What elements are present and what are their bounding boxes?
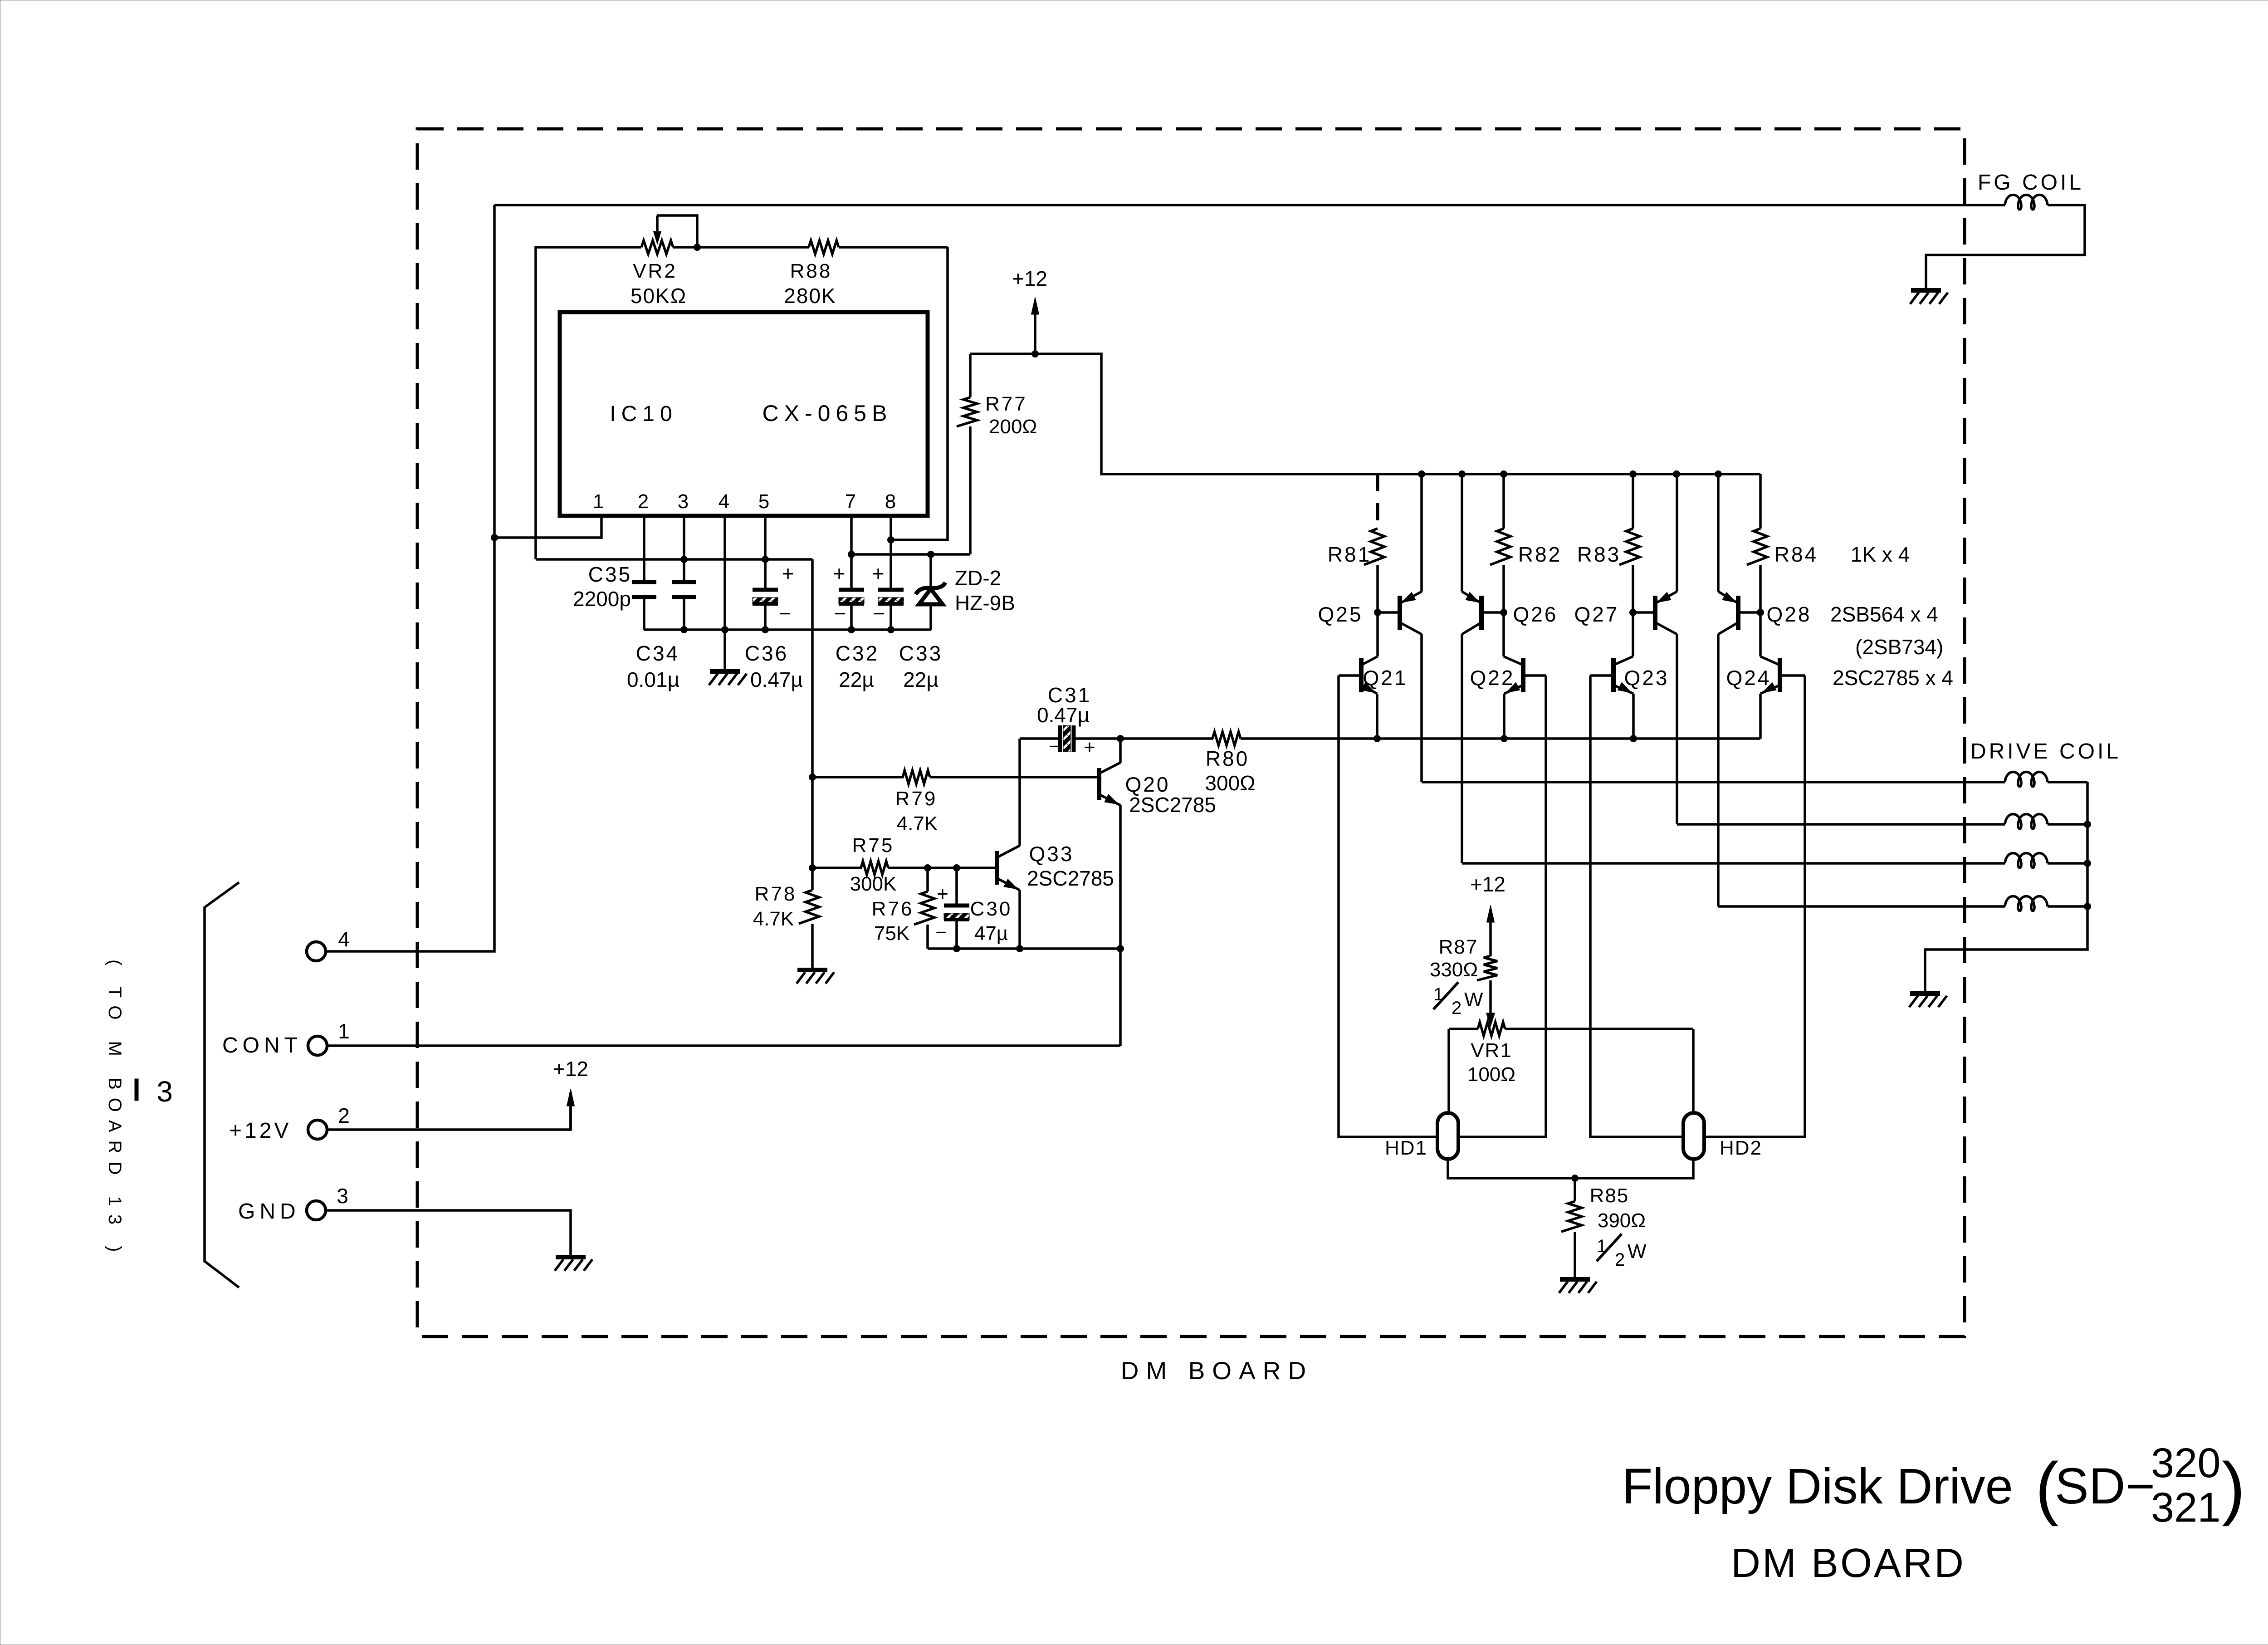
Q28 label bbox=[1767, 602, 1812, 626]
svg-text:2SC2785 x 4: 2SC2785 x 4 bbox=[1833, 666, 1953, 690]
node rail-ZD2 bbox=[927, 551, 934, 558]
svg-text:SD−: SD− bbox=[2055, 1458, 2155, 1514]
svg-text:3: 3 bbox=[678, 490, 689, 513]
pin 4 terminal bbox=[307, 942, 326, 961]
pin number 5 bbox=[758, 490, 769, 513]
C30 plus bbox=[937, 883, 948, 905]
pin number 1 bbox=[593, 490, 604, 513]
R88 value 280K bbox=[784, 284, 836, 308]
node Q27 base bbox=[1629, 609, 1637, 616]
svg-text:−: − bbox=[873, 602, 885, 625]
ground (FG coil) bbox=[1910, 290, 1948, 304]
R75 value 300K bbox=[850, 873, 897, 895]
svg-text:Floppy Disk Drive: Floppy Disk Drive bbox=[1622, 1459, 2013, 1514]
R80 value 300Ω bbox=[1205, 771, 1255, 795]
svg-text:R87: R87 bbox=[1439, 936, 1478, 958]
VR1 right leg bbox=[1692, 1029, 1695, 1113]
svg-text:Q27: Q27 bbox=[1574, 602, 1619, 626]
svg-text:(2SB734): (2SB734) bbox=[1855, 635, 1943, 659]
svg-text:R79: R79 bbox=[895, 788, 938, 810]
C34 label bbox=[636, 641, 679, 665]
transistor Q23 2SC2785 bbox=[1590, 612, 1633, 739]
CONT label bbox=[222, 1033, 302, 1057]
R87 wiper arrow bbox=[1486, 1013, 1495, 1027]
R79 value 4.7K bbox=[897, 813, 938, 835]
svg-text:2SC2785: 2SC2785 bbox=[1129, 793, 1216, 817]
svg-text:−: − bbox=[935, 921, 947, 944]
inductor FG coil bbox=[2005, 195, 2048, 210]
node bus-Q26em bbox=[1458, 470, 1466, 478]
C35 lead bbox=[643, 597, 645, 630]
svg-text:8: 8 bbox=[885, 490, 896, 513]
R78 value 4.7K bbox=[753, 908, 794, 930]
node Q28 base bbox=[1757, 609, 1764, 616]
wire drive coil common bus bbox=[1925, 782, 2087, 994]
R75 label bbox=[852, 834, 894, 857]
svg-text:2: 2 bbox=[338, 1104, 350, 1127]
+12 label (R87) bbox=[1470, 872, 1505, 896]
C35 value 2200p bbox=[573, 587, 631, 611]
svg-text:22µ: 22µ bbox=[839, 668, 874, 691]
Q24 label bbox=[1726, 666, 1771, 690]
node pin8 tie bbox=[887, 536, 894, 543]
wire bias bottom bbox=[928, 947, 1120, 950]
R87 power 1/2W bbox=[1433, 982, 1483, 1018]
capacitor C35 bbox=[632, 582, 656, 597]
svg-text:R81: R81 bbox=[1328, 543, 1371, 566]
svg-text:R76: R76 bbox=[872, 898, 914, 920]
Q33 label bbox=[1029, 842, 1074, 866]
transistor Q24 2SC2785 bbox=[1760, 612, 1805, 739]
svg-text:HD2: HD2 bbox=[1720, 1137, 1762, 1159]
node bus-Q25em bbox=[1418, 470, 1425, 478]
svg-text:GND: GND bbox=[238, 1199, 300, 1224]
svg-text:390Ω: 390Ω bbox=[1598, 1209, 1646, 1232]
+12 supply arrow (R87) bbox=[1487, 905, 1495, 956]
R76 value 75K bbox=[874, 922, 909, 945]
+12 supply arrow (pin2) bbox=[567, 1089, 575, 1130]
svg-text:DM BOARD: DM BOARD bbox=[1731, 1541, 1965, 1586]
pin number 2 bbox=[638, 490, 649, 513]
svg-text:VR1: VR1 bbox=[1471, 1039, 1512, 1062]
inductor drive coil 1 bbox=[2005, 772, 2048, 787]
svg-text:200Ω: 200Ω bbox=[989, 416, 1037, 438]
svg-text:): ) bbox=[2222, 1448, 2245, 1527]
svg-text:22µ: 22µ bbox=[903, 668, 938, 691]
inductor drive coil 3 bbox=[2005, 853, 2048, 868]
svg-text:+12: +12 bbox=[553, 1057, 588, 1081]
C36 minus bbox=[779, 602, 791, 625]
wire loop box right edge bbox=[891, 247, 948, 540]
Q27 label bbox=[1574, 602, 1619, 626]
VR1 left leg bbox=[1447, 1029, 1450, 1113]
node Q23 emitter tie bbox=[1630, 735, 1637, 742]
resistor R85 bbox=[1561, 1178, 1582, 1279]
+12 label (R77) bbox=[1012, 267, 1047, 290]
svg-text:0.47µ: 0.47µ bbox=[750, 668, 803, 691]
node Q21 emitter tie bbox=[1374, 735, 1381, 742]
node bias to Q20 emitter bbox=[1117, 945, 1124, 952]
node bus-pin4 bbox=[721, 626, 728, 633]
R85 value 390Ω bbox=[1598, 1209, 1646, 1232]
node C30 top bbox=[953, 864, 960, 871]
svg-text:R88: R88 bbox=[790, 260, 832, 282]
svg-text:DM BOARD: DM BOARD bbox=[1121, 1356, 1313, 1385]
node rail-pin3 bbox=[680, 556, 688, 563]
transistor Q33 2SC2785 bbox=[997, 777, 1020, 949]
R87 value 330Ω bbox=[1430, 959, 1478, 981]
pin number 7 bbox=[845, 490, 856, 513]
IC10 label bbox=[610, 402, 677, 426]
wire coil4 to bus bbox=[2048, 905, 2087, 908]
R83 label bbox=[1577, 543, 1621, 566]
R78 label bbox=[755, 883, 797, 905]
svg-text:C36: C36 bbox=[745, 641, 788, 665]
ground (pin3) bbox=[555, 1257, 592, 1271]
C32 lead bbox=[850, 604, 853, 630]
wire loop rail pins 3-5 bbox=[536, 558, 812, 561]
wire drive line A (Q25) bbox=[1422, 781, 2005, 783]
svg-text:1: 1 bbox=[593, 490, 604, 513]
svg-text:4: 4 bbox=[719, 490, 729, 513]
wire pin2 to +12 bbox=[327, 1092, 571, 1130]
svg-text:1: 1 bbox=[338, 1019, 350, 1043]
pin 8 lead bbox=[890, 516, 892, 590]
Q21 label bbox=[1363, 666, 1408, 690]
svg-text:−: − bbox=[1049, 735, 1061, 758]
R76 label bbox=[872, 898, 914, 920]
svg-text:+12V: +12V bbox=[229, 1119, 291, 1143]
C36 label bbox=[745, 641, 788, 665]
svg-text:Q22: Q22 bbox=[1470, 666, 1515, 690]
pin 1 terminal bbox=[308, 1036, 327, 1055]
Q28 type 2SB564 x 4 bbox=[1830, 602, 1938, 626]
svg-text:ZD-2: ZD-2 bbox=[955, 566, 1001, 590]
C36 value 0.47µ bbox=[750, 668, 803, 691]
Q22 label bbox=[1470, 666, 1515, 690]
ground (R78) bbox=[797, 970, 834, 984]
Q25 label bbox=[1318, 602, 1363, 626]
wire coil2 to bus bbox=[2048, 823, 2087, 826]
svg-text:4: 4 bbox=[338, 927, 350, 951]
pin 3 lead bbox=[683, 516, 685, 582]
pin number 3 bbox=[678, 490, 689, 513]
node bias-C30 bbox=[953, 945, 960, 952]
svg-text:Q28: Q28 bbox=[1767, 602, 1812, 626]
C31 minus bbox=[1049, 735, 1061, 758]
svg-text:HD1: HD1 bbox=[1385, 1137, 1427, 1159]
svg-text:+: + bbox=[1084, 736, 1095, 759]
wire rail drop to bias network bbox=[811, 559, 814, 868]
+12 supply arrow (R77) bbox=[1031, 297, 1039, 354]
svg-text:100Ω: 100Ω bbox=[1467, 1063, 1515, 1086]
capacitor C34 bbox=[672, 582, 696, 597]
wire drive line D (Q28) bbox=[1718, 905, 2005, 908]
svg-text:2: 2 bbox=[1615, 1250, 1625, 1270]
svg-text:2SC2785: 2SC2785 bbox=[1027, 867, 1114, 890]
Q20 type 2SC2785 bbox=[1129, 793, 1216, 817]
C32 value 22µ bbox=[839, 668, 874, 691]
ground (drive coil) bbox=[1909, 994, 1947, 1007]
CX-065B label bbox=[763, 401, 893, 426]
svg-text:4.7K: 4.7K bbox=[897, 813, 938, 835]
svg-text:+12: +12 bbox=[1470, 872, 1505, 896]
node R79 top tie bbox=[809, 774, 816, 781]
wire pin3 to ground bbox=[326, 1210, 571, 1257]
C33 value 22µ bbox=[903, 668, 938, 691]
svg-text:R78: R78 bbox=[755, 883, 797, 905]
VR2 wiper bbox=[654, 215, 698, 247]
svg-text:C34: C34 bbox=[636, 641, 679, 665]
node R76 top bbox=[924, 864, 931, 871]
ZD-2 value HZ-9B bbox=[955, 591, 1015, 615]
wire Q24 base to HD2 bbox=[1704, 676, 1805, 1137]
zener diode ZD-2 bbox=[916, 554, 945, 630]
resistor R79 bbox=[812, 770, 1020, 784]
svg-text:R75: R75 bbox=[852, 834, 894, 857]
title DM BOARD bbox=[1731, 1541, 1965, 1586]
transistor Q22 2SC2785 bbox=[1504, 612, 1546, 739]
VR1 label bbox=[1471, 1039, 1512, 1062]
svg-text:7: 7 bbox=[845, 490, 856, 513]
wire Q22 base to HD1 bbox=[1458, 676, 1546, 1137]
svg-text:C30: C30 bbox=[970, 898, 1012, 920]
svg-text:2: 2 bbox=[1452, 998, 1461, 1018]
node Q22 emitter tie bbox=[1501, 735, 1508, 742]
svg-text:+: + bbox=[833, 562, 846, 585]
wire pin4 to FG net bbox=[326, 205, 494, 951]
transistor Q25 2SB564 bbox=[1378, 474, 1422, 782]
C31 plus bbox=[1084, 736, 1095, 759]
title Floppy Disk Drive bbox=[1622, 1440, 2245, 1531]
svg-text:R80: R80 bbox=[1206, 747, 1249, 770]
node bus-R83 bbox=[1629, 470, 1637, 478]
capacitor C36 bbox=[753, 590, 778, 604]
svg-text:C33: C33 bbox=[899, 641, 943, 665]
wire drive line C (Q26) bbox=[1462, 862, 2005, 865]
C34 lead bbox=[683, 597, 685, 630]
node coilbus-4 bbox=[2084, 903, 2091, 910]
svg-text:−: − bbox=[834, 602, 846, 625]
svg-text:R85: R85 bbox=[1590, 1185, 1629, 1207]
wire Q23 base to HD2 bbox=[1590, 676, 1684, 1137]
svg-text:75K: 75K bbox=[874, 922, 909, 945]
node rail-pin5 bbox=[762, 556, 769, 563]
transistor Q27 2SB564 bbox=[1633, 474, 1677, 824]
connector label (TO M BOARD 13) rotated bbox=[105, 960, 125, 1260]
ground (pin4 bus) bbox=[709, 630, 747, 685]
svg-text:W: W bbox=[1628, 1240, 1647, 1263]
+12 label (pin2) bbox=[553, 1057, 588, 1081]
node rail-pin7 bbox=[848, 551, 855, 558]
svg-text:+: + bbox=[937, 883, 948, 905]
R84 label bbox=[1774, 543, 1818, 566]
C30 value 47µ bbox=[974, 922, 1008, 945]
+12V label bbox=[229, 1119, 291, 1143]
R79 label bbox=[895, 788, 938, 810]
R88 label bbox=[790, 260, 832, 282]
svg-text:1K x 4: 1K x 4 bbox=[1851, 543, 1910, 566]
wire CONT line bbox=[327, 1044, 1120, 1047]
resistor R77 bbox=[957, 354, 977, 554]
C32 plus bbox=[833, 562, 846, 585]
R85 power 1/2W bbox=[1597, 1234, 1647, 1270]
svg-text:2: 2 bbox=[638, 490, 649, 513]
node +12 arrow tie bbox=[1031, 350, 1039, 357]
svg-text:0.47µ: 0.47µ bbox=[1037, 703, 1090, 727]
node bus-C36 bbox=[762, 626, 769, 633]
node bus-C32 bbox=[848, 626, 855, 633]
node bus-Q27em bbox=[1673, 470, 1680, 478]
svg-text:50KΩ: 50KΩ bbox=[631, 284, 687, 308]
svg-text:R83: R83 bbox=[1577, 543, 1621, 566]
svg-text:Q24: Q24 bbox=[1726, 666, 1771, 690]
wire pin7 rail bbox=[851, 553, 970, 556]
wire pin1 branch bbox=[494, 516, 601, 538]
node Q26 base bbox=[1500, 609, 1507, 616]
resistor R82 bbox=[1490, 474, 1510, 612]
wire VR2 to R88 bbox=[673, 246, 809, 249]
svg-text:HZ-9B: HZ-9B bbox=[955, 591, 1015, 615]
svg-text:321: 321 bbox=[2151, 1484, 2221, 1531]
C31 label bbox=[1048, 683, 1091, 707]
Q23 label bbox=[1624, 666, 1669, 690]
svg-text:47µ: 47µ bbox=[974, 922, 1008, 945]
pin 7 lead bbox=[850, 516, 853, 590]
potentiometer VR1 bbox=[1449, 1022, 1693, 1036]
svg-text:C35: C35 bbox=[588, 563, 632, 586]
svg-text:FG COIL: FG COIL bbox=[1978, 171, 2084, 195]
inductor drive coil 2 bbox=[2005, 814, 2048, 829]
C36 plus bbox=[782, 562, 794, 585]
svg-text:R77: R77 bbox=[985, 393, 1027, 415]
resistor R88 bbox=[809, 240, 839, 254]
DM BOARD caption bbox=[1121, 1356, 1313, 1385]
svg-text:R84: R84 bbox=[1774, 543, 1818, 566]
node bus-R82 bbox=[1500, 470, 1507, 478]
wire R88 to loop right edge bbox=[839, 246, 948, 249]
C30 minus bbox=[935, 921, 947, 944]
R81 label bbox=[1328, 543, 1371, 566]
R85 label bbox=[1590, 1185, 1629, 1207]
wire drive line B (Q27) bbox=[1677, 823, 2005, 826]
svg-text:−: − bbox=[779, 602, 791, 625]
svg-text:300Ω: 300Ω bbox=[1205, 771, 1255, 795]
pin 5 lead bbox=[764, 516, 767, 590]
svg-text:Q23: Q23 bbox=[1624, 666, 1669, 690]
C32 minus bbox=[834, 602, 846, 625]
C36 leads bbox=[764, 559, 767, 630]
node R75 tie bbox=[809, 864, 816, 871]
C33 label bbox=[899, 641, 943, 665]
Q26 label bbox=[1513, 602, 1558, 626]
node pin1 junction bbox=[491, 534, 498, 541]
C33 lead bbox=[890, 604, 892, 630]
capacitor C32 bbox=[839, 590, 864, 604]
svg-text:CONT: CONT bbox=[222, 1033, 302, 1057]
svg-text:Q26: Q26 bbox=[1513, 602, 1558, 626]
node coilbus-3 bbox=[2084, 860, 2091, 867]
wire loop box left edge bbox=[536, 247, 641, 559]
HD1 label bbox=[1385, 1137, 1427, 1159]
pin 4 lead bbox=[723, 516, 726, 630]
svg-text:IC10: IC10 bbox=[610, 402, 677, 426]
svg-text:( TO M BOARD 13 ): ( TO M BOARD 13 ) bbox=[105, 960, 125, 1260]
svg-text:330Ω: 330Ω bbox=[1430, 959, 1478, 981]
svg-text:Q33: Q33 bbox=[1029, 842, 1074, 866]
svg-text:320: 320 bbox=[2151, 1440, 2221, 1486]
resistor R83 bbox=[1619, 474, 1640, 612]
DRIVE COIL label bbox=[1970, 739, 2121, 764]
svg-text:3: 3 bbox=[337, 1184, 348, 1208]
connector designator I 3 bbox=[135, 1075, 173, 1108]
transistor Q21 2SC2785 bbox=[1339, 612, 1378, 739]
head HD2 bbox=[1683, 1113, 1704, 1159]
pin 2 lead bbox=[643, 516, 645, 582]
VR2 value 50KΩ bbox=[631, 284, 687, 308]
pin 1 label bbox=[338, 1019, 350, 1043]
svg-text:2200p: 2200p bbox=[573, 587, 631, 611]
pin number 8 bbox=[885, 490, 896, 513]
head HD1 bbox=[1437, 1113, 1458, 1159]
pin 3 label bbox=[337, 1184, 348, 1208]
pin 2 label bbox=[338, 1104, 350, 1127]
C32 label bbox=[836, 641, 879, 665]
R77 value 200Ω bbox=[989, 416, 1037, 438]
resistor R76 bbox=[914, 868, 934, 949]
C30 label bbox=[970, 898, 1012, 920]
svg-text:W: W bbox=[1464, 989, 1483, 1011]
wire FG coil return bbox=[1926, 205, 2085, 290]
ground (R85) bbox=[1559, 1279, 1597, 1293]
resistor R80 bbox=[1120, 732, 1760, 745]
node bias-Q33em bbox=[1016, 945, 1023, 952]
svg-text:+: + bbox=[872, 562, 885, 585]
resistor R84 bbox=[1747, 474, 1767, 612]
wire FG top line bbox=[494, 204, 2005, 206]
wire ground bus under caps bbox=[644, 628, 931, 631]
wire R77 top to +12 bus bbox=[970, 354, 1760, 474]
svg-text:300K: 300K bbox=[850, 873, 897, 895]
DM board dashed boundary bbox=[417, 129, 1965, 1337]
FG COIL label bbox=[1978, 171, 2084, 195]
capacitor C30 bbox=[944, 868, 969, 949]
node C31/R80 junction bbox=[1117, 735, 1124, 742]
svg-text:5: 5 bbox=[758, 490, 769, 513]
ZD-2 label bbox=[955, 566, 1001, 590]
wire Q21 base to HD1 bbox=[1339, 676, 1438, 1137]
svg-text:0.01µ: 0.01µ bbox=[627, 668, 679, 691]
node bus-C33 bbox=[887, 626, 894, 633]
C31 value 0.47µ bbox=[1037, 703, 1090, 727]
svg-text:4.7K: 4.7K bbox=[753, 908, 794, 930]
potentiometer VR2 bbox=[641, 240, 673, 254]
wire coil1 to bus bbox=[2048, 781, 2087, 783]
VR1 value 100Ω bbox=[1467, 1063, 1515, 1086]
svg-text:C32: C32 bbox=[836, 641, 879, 665]
svg-text:+12: +12 bbox=[1012, 267, 1047, 290]
svg-text:2SB564 x 4: 2SB564 x 4 bbox=[1830, 602, 1938, 626]
capacitor C31 bbox=[1020, 725, 1120, 777]
pin number 4 bbox=[719, 490, 729, 513]
node VR2 wiper tie bbox=[694, 244, 701, 251]
R82 label bbox=[1518, 543, 1562, 566]
pin 3 terminal bbox=[307, 1201, 326, 1220]
wire HD bottoms bbox=[1448, 1159, 1693, 1178]
node coilbus-2 bbox=[2084, 821, 2091, 828]
node Q25 base bbox=[1374, 609, 1381, 616]
node R85 tie bbox=[1571, 1175, 1579, 1182]
